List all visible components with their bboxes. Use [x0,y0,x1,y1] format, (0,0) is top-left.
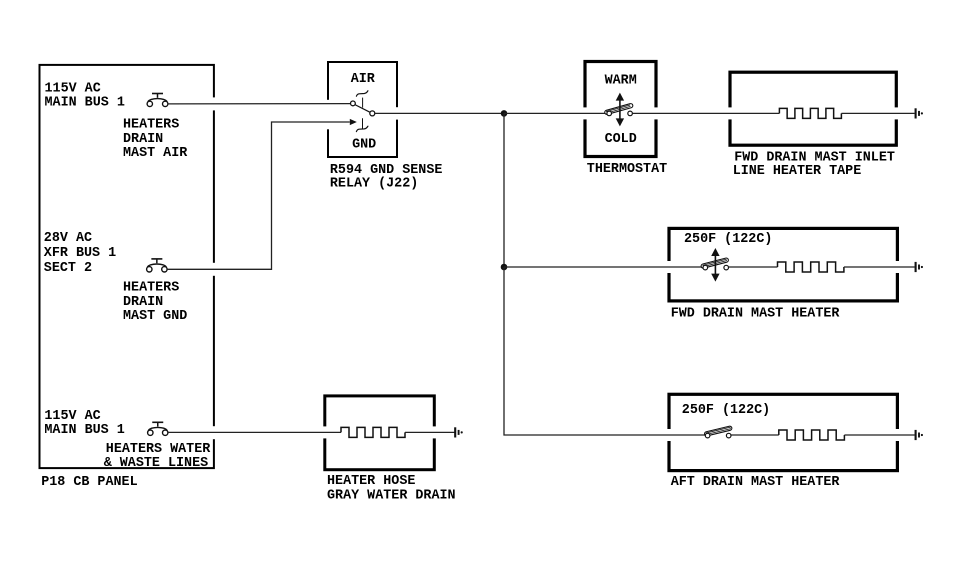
svg-text:HEATER HOSE: HEATER HOSE [327,474,415,489]
wire relay common to junction A [375,112,504,114]
thermostat S2 box [582,62,659,157]
relay GND stationary contact hook [356,126,368,131]
wire aft switch to heater element HR3 [731,434,779,436]
svg-text:MAIN BUS 1: MAIN BUS 1 [45,95,125,110]
svg-text:250F (122C): 250F (122C) [682,403,770,418]
relay linkage dashed [362,98,364,108]
svg-text:HEATERS WATER: HEATERS WATER [106,442,211,457]
heater element HR3 aft drain mast heater [779,430,845,440]
ground G4 [455,427,463,437]
wire CB3 to heater element HR4 [168,431,341,433]
svg-text:DRAIN: DRAIN [123,295,163,310]
wire vertical bus junction A to junction B [503,113,505,267]
wire CB1 to relay AIR contact [168,103,351,105]
svg-text:P18 CB PANEL: P18 CB PANEL [41,475,137,490]
svg-text:& WASTE LINES: & WASTE LINES [104,456,208,471]
svg-text:MAST GND: MAST GND [123,309,187,324]
circuit breaker CB2 HEATERS DRAIN MAST GND [147,259,167,272]
svg-text:HEATERS: HEATERS [123,118,179,133]
wire junction A to thermostat [504,112,607,114]
svg-text:MAIN BUS 1: MAIN BUS 1 [44,423,124,438]
svg-text:GND: GND [352,138,376,153]
fwd thermal switch left contact [703,265,708,270]
aft thermal switch left contact [705,433,710,438]
svg-text:COLD: COLD [605,132,637,147]
wire vertical bus junction B to aft row corner [504,267,705,435]
svg-text:SECT 2: SECT 2 [44,261,92,276]
relay AIR stationary contact hook [356,91,368,96]
ground G3 [916,430,923,440]
wire HR4 to ground G4 [405,431,455,433]
junction A dot [501,110,508,117]
svg-text:AIR: AIR [351,72,376,87]
aft heater thermal switch bimetal element [704,426,732,437]
fwd heater thermal switch bimetal element [701,258,729,269]
svg-text:DRAIN: DRAIN [123,132,163,147]
relay R594 common pole [370,111,375,116]
svg-text:MAST AIR: MAST AIR [123,146,188,161]
aft thermal switch right contact [726,433,731,438]
relay blade common to AIR [355,105,370,113]
thermostat warm/cold arrow [619,98,621,122]
svg-text:XFR BUS 1: XFR BUS 1 [44,246,116,261]
arrowhead at relay GND input [350,119,357,125]
ground G2 [916,262,923,272]
svg-text:RELAY (J22): RELAY (J22) [330,177,418,192]
wire thermostat to heater element HR1 [632,112,779,114]
svg-text:GRAY WATER DRAIN: GRAY WATER DRAIN [327,489,456,504]
svg-text:250F (122C): 250F (122C) [684,232,772,247]
ground G1 [916,108,923,118]
heater hose gray water drain box [322,396,438,470]
relay R594 AIR contact [351,101,356,106]
heater element HR1 inlet line heater tape [779,108,841,118]
svg-text:115V AC: 115V AC [44,409,100,424]
circuit breaker CB3 HEATERS WATER & WASTE LINES [148,422,168,435]
circuit breaker CB1 HEATERS DRAIN MAST AIR [147,94,168,107]
svg-text:AFT DRAIN MAST HEATER: AFT DRAIN MAST HEATER [671,475,841,490]
wire HR3 to ground G3 [844,434,914,436]
svg-text:28V AC: 28V AC [44,231,92,246]
svg-text:THERMOSTAT: THERMOSTAT [587,162,667,177]
relay R594 box [326,62,400,157]
wire HR1 to ground G1 [841,112,914,114]
fwd drain mast heater box [666,228,900,301]
wire fwd switch to heater element HR2 [729,266,778,268]
svg-text:WARM: WARM [605,74,637,89]
wire junction B into fwd heater box [504,266,703,268]
P18 CB panel box [40,65,217,468]
svg-text:LINE HEATER TAPE: LINE HEATER TAPE [733,164,862,179]
fwd drain mast inlet line heater tape box [727,72,899,145]
thermostat S2 bimetal element [604,103,633,115]
svg-text:115V AC: 115V AC [45,82,101,97]
wire HR2 to ground G2 [844,266,915,268]
fwd thermal switch right contact [724,265,729,270]
heater element HR4 heater hose [341,427,405,437]
svg-text:HEATERS: HEATERS [123,281,179,296]
junction B dot [501,264,508,271]
svg-text:FWD DRAIN MAST INLET: FWD DRAIN MAST INLET [734,150,895,165]
thermostat right contact [628,111,633,116]
thermostat left contact [607,111,612,116]
fwd thermal switch arrow [714,253,716,277]
aft drain mast heater box [666,394,900,470]
svg-text:FWD DRAIN MAST HEATER: FWD DRAIN MAST HEATER [671,307,841,322]
heater element HR2 fwd drain mast heater [778,262,844,272]
wire CB2 to relay GND contact [167,122,350,269]
